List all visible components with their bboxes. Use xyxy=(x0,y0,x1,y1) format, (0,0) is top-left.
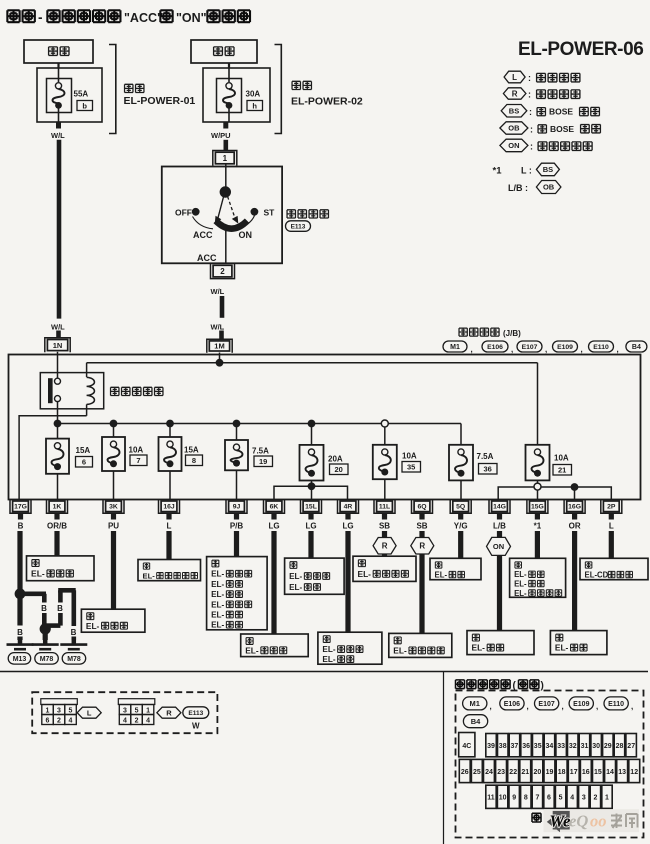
connector ref B4 xyxy=(463,715,487,728)
fuse 19 7.5A xyxy=(225,440,273,470)
wire stub 3K xyxy=(111,513,116,519)
wire stub to ground1 xyxy=(17,637,22,641)
svg-text:,: , xyxy=(490,702,492,711)
box to EL-telephone 至EL-电话 xyxy=(430,558,481,579)
wire down to ground3 xyxy=(72,590,77,626)
ACC switched bus xyxy=(58,423,462,425)
svg-text:34: 34 xyxy=(546,743,554,750)
svg-text:L/B :: L/B : xyxy=(508,183,528,193)
legend OB = without BOSE system xyxy=(500,122,601,135)
legend ON = without navigation system xyxy=(500,139,592,152)
wire stub into 1M xyxy=(219,331,224,340)
svg-text:,: , xyxy=(511,345,513,354)
svg-text:5: 5 xyxy=(69,708,73,715)
wire stub 9J xyxy=(234,513,239,519)
connector 16J xyxy=(159,499,180,513)
wire R to rear wiper lower box xyxy=(419,554,424,633)
svg-text:EL-CD: EL-CD xyxy=(585,571,609,580)
legend BS = with BOSE system xyxy=(501,105,599,118)
junction fuse20 xyxy=(308,420,316,428)
svg-text:EL-: EL- xyxy=(322,655,335,664)
svg-text:L: L xyxy=(609,522,614,531)
svg-text:4: 4 xyxy=(123,718,127,725)
option R (6Q) xyxy=(411,538,434,555)
connector 15G xyxy=(527,499,548,513)
svg-text:2: 2 xyxy=(57,718,61,725)
svg-text:36: 36 xyxy=(484,465,492,474)
svg-text:BOSE: BOSE xyxy=(549,107,573,117)
ground M78 (middle) xyxy=(32,640,59,664)
junction 1M bus xyxy=(216,359,224,367)
svg-text:39: 39 xyxy=(487,743,495,750)
svg-text:M1: M1 xyxy=(469,699,479,708)
svg-text:EL-: EL- xyxy=(435,571,448,580)
connector 14G xyxy=(489,499,510,513)
svg-text:(J/B): (J/B) xyxy=(503,329,521,338)
fuse layout row 11-1 xyxy=(486,785,496,808)
svg-text:M13: M13 xyxy=(13,656,27,663)
svg-text:EL-: EL- xyxy=(555,643,569,653)
svg-text:2P: 2P xyxy=(607,504,616,511)
svg-text:EL-: EL- xyxy=(289,583,302,592)
ground M78 (right) xyxy=(60,640,87,664)
svg-text:E107: E107 xyxy=(522,344,538,351)
svg-text:OR/B: OR/B xyxy=(47,522,67,531)
svg-text:7: 7 xyxy=(535,795,539,802)
box to EL-wiper/comm/theft/multi/door/time 至EL-雨刮器... xyxy=(207,557,268,630)
svg-text:10A: 10A xyxy=(402,452,417,461)
svg-text:6: 6 xyxy=(547,795,551,802)
wire stub 1K xyxy=(54,513,59,519)
wire connector1 to switch box xyxy=(225,164,227,167)
fusible link 55A b xyxy=(37,68,102,122)
svg-text:55A: 55A xyxy=(74,90,89,99)
svg-text:16J: 16J xyxy=(163,504,175,511)
wire stub 11L xyxy=(382,513,387,519)
accessory relay 附件继电器 xyxy=(40,352,103,420)
column divider line xyxy=(443,672,445,844)
svg-text:Y/G: Y/G xyxy=(454,522,468,531)
svg-text:23: 23 xyxy=(497,769,505,776)
ground M13 xyxy=(7,640,34,664)
svg-text:2: 2 xyxy=(593,795,597,802)
svg-text:ST: ST xyxy=(264,208,276,218)
wire stub 5Q xyxy=(458,513,463,519)
connector ref E106 xyxy=(500,697,524,710)
svg-text:SB: SB xyxy=(379,522,390,531)
fuse 8 15A xyxy=(159,437,203,471)
connector 1K xyxy=(47,499,68,513)
svg-text:3: 3 xyxy=(582,795,586,802)
svg-text:20: 20 xyxy=(534,769,542,776)
svg-text:11: 11 xyxy=(487,795,495,802)
svg-text:EL-POWER-06: EL-POWER-06 xyxy=(518,39,643,60)
rotor arm to ACC (solid, arrow) xyxy=(218,197,224,219)
connector ref E110 xyxy=(604,697,628,710)
svg-text:35: 35 xyxy=(407,463,415,472)
svg-text:,: , xyxy=(545,345,547,354)
svg-text:BS: BS xyxy=(543,165,553,174)
wire LG to wiper/time box2 xyxy=(345,531,350,632)
svg-text:17G: 17G xyxy=(14,504,27,511)
svg-text:E107: E107 xyxy=(538,701,554,708)
svg-text:36: 36 xyxy=(522,743,530,750)
see EL-POWER-02 bracket xyxy=(275,45,363,134)
wire battery1 to fusible link xyxy=(57,63,59,68)
svg-text:30: 30 xyxy=(592,743,600,750)
wire L/B to ON option xyxy=(497,531,502,537)
svg-text:R: R xyxy=(166,708,172,717)
svg-text:R: R xyxy=(512,89,518,98)
connector ref E113 xyxy=(183,707,209,719)
wire ON to audio box xyxy=(497,555,502,630)
svg-text:L/B: L/B xyxy=(493,522,506,531)
svg-text:E113: E113 xyxy=(188,710,203,717)
svg-text:22: 22 xyxy=(509,769,517,776)
connector ref M1 xyxy=(463,697,487,710)
connector ref E113 xyxy=(286,221,311,232)
svg-text:10A: 10A xyxy=(554,454,569,463)
connector 5Q xyxy=(450,499,471,513)
box to EL-clock 至EL-时钟 xyxy=(550,631,607,655)
wire into rotor xyxy=(225,167,227,188)
wire down to splice2 xyxy=(42,594,47,603)
connector 6Q xyxy=(412,499,433,513)
svg-text:35: 35 xyxy=(534,743,542,750)
svg-text:3: 3 xyxy=(57,708,61,715)
svg-text:16: 16 xyxy=(582,769,590,776)
option L xyxy=(77,707,101,718)
wire Y/G to telephone box xyxy=(458,531,463,558)
connector 2P xyxy=(601,499,622,513)
box to EL-audio 至EL-音响 xyxy=(467,631,534,655)
svg-text:EL-POWER-02: EL-POWER-02 xyxy=(291,96,363,108)
wire fuse8 to 16J xyxy=(169,471,171,500)
svg-text:B4: B4 xyxy=(632,344,641,351)
svg-text:OB: OB xyxy=(508,124,520,133)
wire LG to wiper box xyxy=(271,531,276,634)
fuse 7 10A xyxy=(102,437,147,471)
svg-text:LG: LG xyxy=(342,522,353,531)
svg-text:B: B xyxy=(71,628,77,637)
svg-text:19: 19 xyxy=(546,769,554,776)
wire up segment 2 xyxy=(58,590,63,602)
svg-text:E110: E110 xyxy=(593,344,609,351)
connector face view dashed box xyxy=(32,692,217,733)
connector 4R xyxy=(338,499,359,513)
svg-text:"ACC": "ACC" xyxy=(124,11,163,25)
svg-text:1N: 1N xyxy=(53,341,63,350)
svg-text::: : xyxy=(528,90,531,100)
wire up segment xyxy=(58,613,63,626)
svg-text:5: 5 xyxy=(135,708,139,715)
wire stub 16J xyxy=(166,513,171,519)
foldout dashed box xyxy=(456,691,644,838)
label 点火开关 xyxy=(287,210,295,218)
wire stub 17G xyxy=(18,513,23,519)
svg-text:,: , xyxy=(617,345,619,354)
svg-text:30A: 30A xyxy=(246,90,261,99)
svg-text:): ) xyxy=(541,680,544,691)
svg-text:29: 29 xyxy=(604,743,612,750)
see EL-POWER-01 bracket xyxy=(109,45,195,134)
connector ref M1 xyxy=(443,341,467,352)
svg-text:EL-: EL- xyxy=(245,645,259,655)
svg-text:28: 28 xyxy=(616,743,624,750)
svg-text:R: R xyxy=(419,542,425,551)
box to EL-rear wiper 至EL-后雨刮器 (upper) xyxy=(353,556,416,581)
wire fuse36 to 5Q xyxy=(460,480,462,499)
svg-text:EL-: EL- xyxy=(211,600,224,609)
svg-text:1: 1 xyxy=(605,795,609,802)
svg-text:"ON": "ON" xyxy=(176,11,207,25)
svg-text:19: 19 xyxy=(259,457,267,466)
svg-text:3: 3 xyxy=(123,708,127,715)
svg-text:31: 31 xyxy=(581,743,589,750)
thin arc ON to ST xyxy=(248,216,255,225)
battery box 电瓶 (left) xyxy=(24,40,93,63)
svg-text:E109: E109 xyxy=(557,344,573,351)
wire fuse6 to 1K xyxy=(57,474,59,500)
svg-text:SB: SB xyxy=(416,522,427,531)
wire W/L battery1 stub xyxy=(56,122,61,129)
svg-text:4: 4 xyxy=(570,795,574,802)
svg-text:9J: 9J xyxy=(233,504,241,511)
svg-text:,: , xyxy=(581,345,583,354)
wire relay coil to 17G (ground side) xyxy=(19,416,87,500)
separator line xyxy=(0,671,648,673)
wire bridge top xyxy=(58,588,75,593)
wire LG to wiper/time box xyxy=(308,531,313,558)
svg-text:E106: E106 xyxy=(504,701,520,708)
svg-text:EL-: EL- xyxy=(289,572,302,581)
svg-text:P/B: P/B xyxy=(230,522,244,531)
svg-text:18: 18 xyxy=(558,769,566,776)
wire stub to ground3 xyxy=(72,637,77,641)
svg-text:13: 13 xyxy=(618,769,626,776)
connector 1 (ignition switch) xyxy=(213,151,237,166)
connector ref E106 xyxy=(482,341,508,352)
svg-text:17: 17 xyxy=(570,769,578,776)
svg-text:5Q: 5Q xyxy=(456,504,465,511)
svg-text:We: We xyxy=(550,812,571,831)
box to EL-rear wiper 至EL-后雨刮器 (lower) xyxy=(389,633,452,657)
wire L to headlamp wiper box xyxy=(166,531,171,560)
fuse layout row 39-27 xyxy=(486,734,497,757)
connector ref E110 xyxy=(589,341,614,352)
svg-text:9: 9 xyxy=(512,795,516,802)
svg-text:20: 20 xyxy=(335,465,343,474)
svg-text:,: , xyxy=(562,702,564,711)
svg-text:B: B xyxy=(41,604,47,613)
fusible link 30A h xyxy=(203,68,270,122)
box to EL-wiper/time 至EL-雨刮器 EL-时间 xyxy=(285,558,345,594)
svg-text:EL-: EL- xyxy=(472,643,486,653)
wire OR/B to cigarette lighter box xyxy=(54,531,59,556)
wire W/PU battery2 stub xyxy=(223,122,228,129)
svg-text:,: , xyxy=(596,702,598,711)
svg-text:L: L xyxy=(87,708,92,717)
svg-text:38: 38 xyxy=(499,743,507,750)
svg-text:6Q: 6Q xyxy=(417,504,426,511)
svg-text:,: , xyxy=(527,702,529,711)
svg-text:15: 15 xyxy=(594,769,602,776)
connector ref E109 xyxy=(553,341,578,352)
wire stub 14G xyxy=(497,513,502,519)
box to EL-mirror 至EL-后视镜 xyxy=(81,609,144,632)
svg-text:M78: M78 xyxy=(67,656,81,663)
svg-text:ACC: ACC xyxy=(197,253,217,263)
fuse 35 10A xyxy=(373,445,421,479)
title 供电-点火开关在"ACC"或"ON"的位置 xyxy=(7,10,250,25)
svg-text:1M: 1M xyxy=(214,342,224,351)
legend *1 L:BS xyxy=(493,163,560,176)
svg-text:1: 1 xyxy=(223,154,228,163)
fuse 36 7.5A xyxy=(449,445,497,481)
wire fuse20 split to 6K/15L/4R xyxy=(311,481,313,500)
junction fuse7 xyxy=(110,420,118,428)
svg-text:EL-: EL- xyxy=(514,570,527,579)
ignition switch box xyxy=(162,167,282,264)
connector ref B4 xyxy=(626,341,647,352)
svg-text:20A: 20A xyxy=(328,455,343,464)
svg-text:M78: M78 xyxy=(40,656,54,663)
wire stub 15L xyxy=(308,513,313,519)
svg-text:W/L: W/L xyxy=(211,322,225,331)
fuse 20 20A xyxy=(300,445,349,481)
svg-text:10: 10 xyxy=(499,795,507,802)
wire stub 6K xyxy=(271,513,276,519)
battery box 电瓶 (right) xyxy=(191,40,257,63)
connector 9J xyxy=(226,499,247,513)
svg-text:ON: ON xyxy=(493,542,504,551)
connector 1M xyxy=(207,339,232,353)
svg-text:16G: 16G xyxy=(568,504,581,511)
svg-text:EL-: EL- xyxy=(143,571,156,580)
wire P/B to multi box xyxy=(234,531,239,557)
svg-text:11L: 11L xyxy=(379,504,390,511)
svg-text:26: 26 xyxy=(461,769,469,776)
svg-text:6K: 6K xyxy=(270,504,279,511)
svg-text:33: 33 xyxy=(557,743,565,750)
wire stub into connector 1 xyxy=(224,140,229,150)
svg-text:EL-: EL- xyxy=(322,645,335,654)
svg-text:EL-: EL- xyxy=(211,590,224,599)
svg-text:8: 8 xyxy=(524,795,528,802)
svg-text:L :: L : xyxy=(521,166,532,176)
connector 16G xyxy=(564,499,585,513)
svg-text:PU: PU xyxy=(108,522,119,531)
svg-text:,: , xyxy=(631,702,633,711)
wire R to rear wiper box xyxy=(382,554,387,556)
wire OR to clock box xyxy=(572,531,577,631)
svg-text:32: 32 xyxy=(569,743,577,750)
wire 1M feed bus xyxy=(87,362,538,364)
svg-text:L: L xyxy=(167,522,172,531)
svg-text:-: - xyxy=(38,10,43,25)
junction B splice 2 xyxy=(40,623,51,634)
svg-text:14: 14 xyxy=(606,769,614,776)
svg-text:4: 4 xyxy=(146,718,150,725)
svg-text:B4: B4 xyxy=(471,717,481,726)
wire PU to mirror box xyxy=(111,531,116,609)
wire stub 6Q xyxy=(419,513,424,519)
svg-text:L: L xyxy=(512,73,517,82)
fuse 21 10A xyxy=(526,445,572,481)
svg-text:15A: 15A xyxy=(76,446,91,455)
connector 11L xyxy=(374,499,395,513)
svg-text:6: 6 xyxy=(46,718,50,725)
svg-text:4R: 4R xyxy=(344,504,353,511)
svg-text:1: 1 xyxy=(46,708,50,715)
svg-text:21: 21 xyxy=(558,466,566,475)
svg-text:7.5A: 7.5A xyxy=(477,452,494,461)
svg-text:LG: LG xyxy=(305,522,316,531)
svg-text:W/PU: W/PU xyxy=(211,131,231,140)
svg-text:*1: *1 xyxy=(534,522,542,531)
svg-text:BOSE: BOSE xyxy=(550,124,574,134)
svg-text:E106: E106 xyxy=(487,344,503,351)
option R xyxy=(157,707,181,718)
svg-text:7: 7 xyxy=(136,456,140,465)
junction B splice 1 xyxy=(15,588,26,599)
wire splice2 to ground2 xyxy=(43,633,48,640)
svg-text::: : xyxy=(528,73,531,83)
junction fuse19 xyxy=(233,420,241,428)
wire SB to R option 2 xyxy=(419,531,424,537)
box to EL-cigarette lighter 至EL-点烟器 xyxy=(27,556,95,581)
legend R = right-hand-drive xyxy=(503,88,579,100)
svg-text:OFF: OFF xyxy=(175,208,192,218)
svg-text::: : xyxy=(530,142,533,152)
svg-text:h: h xyxy=(252,101,257,110)
svg-text:4: 4 xyxy=(69,718,73,725)
wire continue to splice2 xyxy=(42,613,47,625)
connector grid E113 (R) pins 3 5 1 / 4 2 4 xyxy=(118,699,155,705)
wire 2 to 1M xyxy=(220,296,225,318)
connector 17G xyxy=(10,499,31,513)
svg-text:E109: E109 xyxy=(573,701,589,708)
svg-text:24: 24 xyxy=(485,769,493,776)
connector 2 (ignition switch output) xyxy=(211,264,235,279)
svg-text:ON: ON xyxy=(239,230,253,240)
svg-text:14G: 14G xyxy=(493,504,506,511)
svg-text:*1: *1 xyxy=(493,166,503,177)
svg-text:LG: LG xyxy=(268,522,279,531)
svg-text:2: 2 xyxy=(220,267,225,276)
svg-text::: : xyxy=(530,124,533,134)
svg-text:15A: 15A xyxy=(184,446,199,455)
legend L = left-hand-drive xyxy=(504,71,580,83)
wire stub into 1N xyxy=(56,331,61,339)
svg-text:E113: E113 xyxy=(291,223,306,230)
wire splice1 right xyxy=(20,591,46,596)
svg-text:EL-: EL- xyxy=(393,646,407,656)
box to EL-headlamp wiper 至EL-大灯雨刷器 xyxy=(138,560,201,581)
svg-text:15L: 15L xyxy=(305,504,317,511)
tap fuse35 (open) xyxy=(381,420,388,427)
svg-text:2: 2 xyxy=(135,718,139,725)
label 保险丝盒 (J/B) xyxy=(459,328,521,338)
rotor arm to ON (dashed, arrow) xyxy=(228,197,235,218)
svg-text:EL-: EL- xyxy=(211,580,224,589)
svg-text:b: b xyxy=(82,101,87,110)
svg-text:5: 5 xyxy=(559,795,563,802)
contact OFF xyxy=(175,208,200,218)
svg-text:,: , xyxy=(471,345,473,354)
watermark WeeQoo xyxy=(544,809,640,832)
svg-text:37: 37 xyxy=(511,743,519,750)
